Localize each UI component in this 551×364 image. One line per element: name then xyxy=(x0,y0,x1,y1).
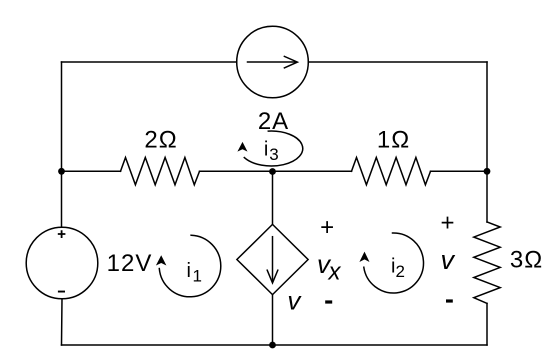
svg-text:2: 2 xyxy=(396,262,405,281)
svg-text:1Ω: 1Ω xyxy=(377,127,410,154)
vsource minus sign xyxy=(58,291,65,293)
svg-text:x: x xyxy=(328,259,342,286)
svg-text:1: 1 xyxy=(193,267,202,286)
wire mid rail center segment xyxy=(200,170,352,172)
mesh arrow i2 arc xyxy=(364,233,424,293)
wire center stem lower xyxy=(272,295,274,345)
svg-text:12V: 12V xyxy=(107,250,153,277)
wire right rail upper xyxy=(486,62,488,222)
node C dot (right mid) xyxy=(484,168,491,175)
svg-text:3Ω: 3Ω xyxy=(510,247,543,274)
svg-text:i: i xyxy=(187,260,191,282)
vsource plus sign xyxy=(58,230,66,238)
resistor R1 2ohm zigzag xyxy=(121,158,200,185)
node A dot (left mid) xyxy=(58,168,65,175)
svg-text:v: v xyxy=(440,245,455,275)
svg-text:2Ω: 2Ω xyxy=(144,127,177,154)
label minus of v (right) xyxy=(446,299,453,302)
wire bottom rail xyxy=(62,344,488,346)
mesh arrow i1 head xyxy=(156,255,167,265)
resistor R2 1ohm zigzag xyxy=(352,158,431,185)
svg-text:+: + xyxy=(320,214,335,241)
wire mid rail right segment xyxy=(431,170,488,172)
svg-text:v: v xyxy=(287,286,302,316)
wire top rail right segment xyxy=(308,61,487,63)
voltage source V1 circle 12V xyxy=(26,227,98,299)
resistor R3 3ohm vertical zigzag xyxy=(474,222,500,303)
wire top rail left segment xyxy=(62,61,237,63)
wire mid rail left segment xyxy=(62,170,121,172)
svg-text:i: i xyxy=(264,139,268,161)
mesh arrow i1 arc xyxy=(159,235,220,297)
node B dot (center mid) xyxy=(269,168,276,175)
mesh arrow i3 head xyxy=(237,142,247,152)
mesh arrow i2 head xyxy=(359,252,369,262)
wire right rail lower xyxy=(486,303,488,345)
svg-text:2A: 2A xyxy=(258,108,289,135)
current source U1 circle 2A xyxy=(237,26,309,98)
mesh arrow i3 ellipse arc xyxy=(244,131,302,166)
wire left rail upper xyxy=(61,62,63,227)
wire center stem upper xyxy=(272,171,274,224)
label minus of vx xyxy=(325,300,332,303)
svg-text:+: + xyxy=(440,210,455,237)
dependent source diamond xyxy=(237,224,308,294)
current source arrow xyxy=(248,61,296,63)
node D dot (bottom center) xyxy=(269,342,276,349)
wire left rail lower xyxy=(61,299,64,345)
dependent source arrow xyxy=(272,237,274,282)
svg-text:3: 3 xyxy=(269,145,278,164)
